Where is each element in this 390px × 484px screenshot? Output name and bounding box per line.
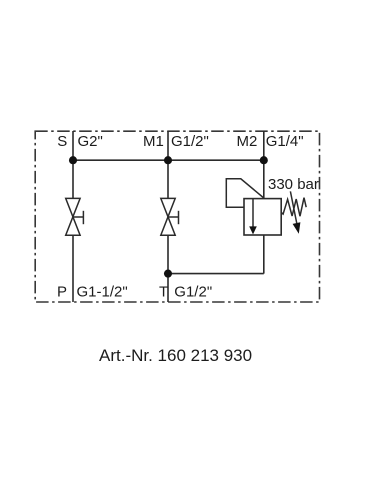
shut-off valve V1 (S-P line) xyxy=(66,198,84,235)
relief valve RV1: spring xyxy=(281,198,306,217)
svg-text:M1: M1 xyxy=(143,133,164,150)
wire: relief valve outlet to T xyxy=(168,273,264,275)
svg-text:M2: M2 xyxy=(237,133,258,150)
wire: relief valve outlet down xyxy=(263,235,265,274)
svg-text:T: T xyxy=(159,284,168,301)
relief valve RV1: pilot line xyxy=(226,179,263,207)
svg-text:Art.-Nr. 160 213 930: Art.-Nr. 160 213 930 xyxy=(99,346,252,365)
relief valve RV1: internal flow arrow xyxy=(249,199,257,235)
svg-text:S: S xyxy=(57,133,67,150)
node: junction T xyxy=(164,270,172,278)
svg-text:G2": G2" xyxy=(78,133,103,150)
enclosure dash-dot border xyxy=(35,131,319,302)
svg-text:G1/2": G1/2" xyxy=(171,133,209,150)
node: junction M2 xyxy=(260,156,268,164)
svg-text:G1/2": G1/2" xyxy=(174,284,212,301)
svg-text:P: P xyxy=(57,284,67,301)
wire: port M2 vertical line xyxy=(263,131,265,199)
node: junction S xyxy=(69,156,77,164)
wire: port M1/T vertical line lower xyxy=(167,235,169,302)
svg-text:G1/4": G1/4" xyxy=(266,133,304,150)
relief valve RV1: body box xyxy=(244,199,281,235)
node: junction M1 xyxy=(164,156,172,164)
shut-off valve V2 (M1-T line) xyxy=(161,198,179,235)
wire: manifold horizontal line S-M1-M2 xyxy=(73,159,264,161)
svg-text:330 bar: 330 bar xyxy=(268,176,319,193)
wire: port M1/T vertical line upper xyxy=(167,131,169,198)
wire: port S vertical line upper xyxy=(72,131,74,198)
svg-text:G1-1/2": G1-1/2" xyxy=(77,284,128,301)
wire: port S vertical line lower xyxy=(72,235,74,302)
relief valve RV1: adjustment arrow xyxy=(290,191,300,233)
